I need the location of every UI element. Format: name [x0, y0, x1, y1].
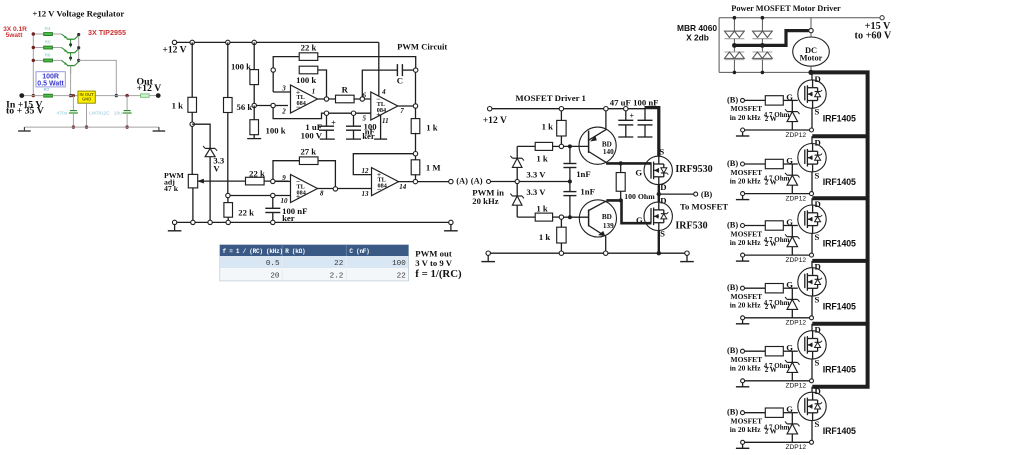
diode D5 MBR4060 upper	[761, 18, 763, 31]
transistor Q2 TIP2955	[67, 52, 75, 54]
wire divider to pin2	[256, 105, 288, 107]
svg-text:(B): (B)	[701, 189, 713, 199]
svg-text:+12 V: +12 V	[162, 45, 186, 56]
svg-text:100: 100	[392, 260, 406, 268]
svg-text:f = 1/(RC): f = 1/(RC)	[415, 268, 462, 280]
svg-text:1 k: 1 k	[172, 101, 184, 111]
resistor R 4.7 Ohm 2W cell 3	[745, 225, 766, 227]
svg-text:3: 3	[281, 85, 286, 93]
wire base bus	[70, 66, 72, 96]
regulator U2 LM7812C	[78, 91, 95, 103]
wire IRF530 source down	[658, 231, 660, 254]
ground PWM right	[450, 225, 452, 231]
svg-text:10: 10	[281, 197, 289, 205]
svg-text:2.2: 2.2	[330, 272, 344, 280]
ground cell 3	[741, 253, 745, 257]
svg-text:C: C	[397, 76, 403, 86]
svg-text:S: S	[659, 146, 664, 156]
diode D7 MBR4060 lower	[761, 45, 763, 52]
svg-text:ker: ker	[282, 213, 295, 223]
transistor Q3 TIP2955	[67, 65, 75, 67]
wire source row cell 6	[811, 421, 813, 443]
wire emitter rows	[33, 33, 43, 35]
svg-text:S: S	[815, 232, 820, 242]
svg-text:MOSFET: MOSFET	[731, 168, 763, 177]
svg-text:S: S	[815, 170, 820, 180]
wire drain stub Q8	[812, 196, 867, 200]
svg-text:PWM out: PWM out	[415, 248, 452, 258]
svg-text:1 k: 1 k	[539, 232, 551, 242]
svg-text:139: 139	[603, 222, 614, 230]
wire gate IRF530 thick	[606, 200, 651, 223]
svg-text:D: D	[660, 182, 666, 192]
fuse output link	[141, 94, 150, 97]
zener ZDP12 cell 1	[791, 100, 793, 111]
svg-text:14: 14	[399, 183, 407, 191]
svg-text:IRF1405: IRF1405	[823, 426, 856, 436]
svg-text:5watt: 5watt	[6, 32, 24, 39]
svg-text:7: 7	[400, 107, 404, 115]
ground pin11	[374, 138, 387, 140]
wire pin12 feedback	[353, 154, 413, 175]
wire op4 output row	[399, 181, 449, 183]
svg-text:R7: R7	[44, 87, 50, 92]
wire driver top rail	[492, 108, 645, 110]
ground cell 2	[741, 192, 745, 196]
wire pin10 row	[230, 195, 291, 197]
svg-text:10u: 10u	[114, 111, 122, 117]
wire source row cell 4	[811, 296, 813, 318]
svg-text:2 W: 2 W	[765, 427, 777, 435]
wire diode common thick to motor	[734, 31, 808, 46]
svg-text:1nF: 1nF	[576, 169, 590, 179]
svg-text:PWM Circuit: PWM Circuit	[397, 41, 447, 51]
svg-text:in 20 kHz: in 20 kHz	[730, 364, 762, 373]
svg-text:2 W: 2 W	[765, 240, 777, 248]
svg-text:ker: ker	[362, 131, 375, 141]
resistor R 4.7 Ohm 2W cell 4	[745, 287, 766, 289]
svg-text:470u: 470u	[57, 111, 68, 117]
wire op3 output row	[318, 188, 372, 190]
capacitor C2 100nF ker	[353, 115, 355, 126]
svg-text:1 k: 1 k	[536, 153, 548, 163]
svg-text:in 20 kHz: in 20 kHz	[730, 177, 762, 186]
terminal +12V PWM	[172, 40, 176, 44]
svg-text:084: 084	[377, 107, 386, 114]
svg-text:+12 V Voltage Regulator: +12 V Voltage Regulator	[32, 9, 124, 19]
svg-text:MOSFET: MOSFET	[731, 355, 763, 364]
terminal (A) PWM out	[449, 179, 453, 183]
svg-text:13: 13	[362, 190, 370, 198]
wire PWM ground rail	[175, 221, 451, 223]
transistor Q1 TIP2955	[67, 38, 75, 40]
svg-text:S: S	[815, 419, 820, 429]
svg-text:20 kHz: 20 kHz	[472, 196, 498, 206]
transistor Q4 BD140	[579, 127, 616, 164]
svg-text:S: S	[815, 107, 820, 117]
wire 27k left	[273, 161, 299, 180]
capacitor C 10u	[126, 96, 128, 111]
label 100R 0.5 Watt callout box	[36, 72, 65, 87]
terminal (B) to MOSFET	[661, 193, 694, 195]
svg-text:to +60 V: to +60 V	[855, 30, 892, 41]
wire diode box bottom edge	[719, 71, 809, 73]
svg-text:S: S	[660, 229, 665, 239]
svg-text:MOSFET: MOSFET	[731, 417, 763, 426]
svg-text:+12 V: +12 V	[137, 83, 162, 94]
wire pin3 input	[273, 91, 290, 93]
wire input left rail	[32, 34, 34, 96]
svg-text:1 k: 1 k	[536, 203, 548, 213]
svg-text:in 20 kHz: in 20 kHz	[730, 301, 762, 310]
resistor R 4.7 Ohm 2W cell 1	[745, 99, 766, 101]
zener D1 3.3V	[192, 124, 210, 148]
svg-text:f = 1 / (RC) (kHz): f = 1 / (RC) (kHz)	[223, 248, 283, 255]
svg-text:2 W: 2 W	[765, 303, 777, 311]
wire driver input row	[491, 181, 516, 183]
svg-text:MOSFET: MOSFET	[731, 104, 763, 113]
svg-text:(A): (A)	[471, 176, 483, 186]
resistor R 100 Ohm	[620, 163, 622, 172]
capacitor C 470u	[72, 96, 74, 111]
wire diode box left edge	[718, 18, 720, 73]
transistor Q5 BD139	[579, 200, 616, 237]
wire pin9 input	[275, 180, 291, 182]
ground right regulator	[158, 127, 160, 131]
svg-text:12: 12	[362, 167, 370, 175]
svg-text:ZDP12: ZDP12	[786, 383, 807, 390]
wire 22k feedback right	[318, 57, 416, 68]
mosfet IRF9530	[644, 156, 672, 184]
svg-text:084: 084	[297, 189, 306, 196]
svg-text:22: 22	[397, 272, 407, 280]
wire source row cell 5	[811, 359, 813, 381]
svg-text:IRF1405: IRF1405	[823, 364, 856, 374]
wire op1 output row	[318, 98, 337, 100]
svg-text:100 k: 100 k	[231, 62, 251, 72]
zener D2 3.3V	[512, 157, 522, 159]
svg-text:0.5: 0.5	[266, 260, 280, 268]
ground cell 4	[741, 316, 745, 320]
svg-text:S: S	[815, 295, 820, 305]
svg-text:G: G	[636, 215, 643, 225]
svg-text:100 Ohm: 100 Ohm	[624, 192, 655, 201]
svg-text:S: S	[815, 358, 820, 368]
zener ZDP12 cell 5	[791, 351, 793, 362]
wire op2 output	[397, 105, 413, 107]
svg-text:IRF530: IRF530	[675, 220, 707, 231]
op-amp U1C TL084	[291, 175, 318, 203]
svg-text:R (kΩ): R (kΩ)	[285, 248, 305, 255]
wire gate cell 6	[783, 412, 798, 414]
capacitor C integrator	[362, 70, 397, 97]
svg-text:GND: GND	[82, 97, 91, 102]
wire integrator output column	[415, 72, 417, 104]
capacitor C3 100nF ker	[272, 198, 274, 209]
wire collector to output	[79, 60, 117, 95]
svg-text:100R: 100R	[42, 73, 59, 80]
zener D3 3.3V	[516, 184, 518, 196]
svg-text:(B): (B)	[727, 221, 738, 230]
svg-text:2: 2	[281, 108, 286, 116]
op-amp U1B TL084	[371, 92, 398, 120]
svg-text:22 k: 22 k	[238, 207, 254, 217]
wire gate cell 5	[783, 350, 798, 352]
capacitor C6 1nF upper	[568, 144, 572, 148]
diode D6 MBR4060 lower	[733, 45, 735, 52]
svg-text:MOSFET: MOSFET	[731, 229, 763, 238]
zener ZDP12 cell 3	[791, 226, 793, 237]
ground PWM left	[174, 225, 176, 231]
svg-text:(B): (B)	[727, 283, 738, 292]
svg-text:2 W: 2 W	[765, 179, 777, 187]
wire drain stub Q9	[812, 259, 867, 263]
resistor R 4.7 Ohm 2W cell 2	[745, 163, 766, 165]
capacitor C1 1uF 100V	[326, 115, 328, 126]
svg-text:100 nF: 100 nF	[633, 97, 658, 107]
resistor R 4.7 Ohm 2W cell 6	[745, 412, 766, 414]
node base top junction	[559, 144, 563, 148]
wire drain lead Q6	[811, 72, 813, 80]
svg-text:V: V	[213, 164, 220, 174]
terminal +15V to +60V	[880, 16, 884, 20]
node rail-row junctions	[32, 32, 35, 35]
wire 27k right	[318, 161, 335, 187]
svg-text:1: 1	[312, 88, 316, 96]
svg-text:1 k: 1 k	[426, 122, 438, 132]
wire gate cell 1	[783, 99, 798, 101]
svg-text:3.3 V: 3.3 V	[526, 169, 546, 179]
wire driver left column upper	[516, 146, 518, 158]
wire 22k feedback left	[273, 57, 299, 92]
wire +V top rail motor	[719, 17, 880, 19]
svg-text:27 k: 27 k	[300, 147, 316, 157]
terminal +12V driver	[488, 107, 492, 111]
ground cell 6	[741, 440, 745, 444]
svg-text:3X TIP2955: 3X TIP2955	[88, 28, 126, 37]
terminal In +15V	[19, 93, 24, 98]
svg-text:X 2db: X 2db	[686, 33, 709, 43]
svg-text:(B): (B)	[727, 95, 738, 104]
wire output node to IRF530	[658, 185, 660, 203]
resistor R 4.7 Ohm 2W cell 5	[745, 350, 766, 352]
ground 100k divider	[247, 138, 261, 140]
op-amp U1A TL084	[291, 85, 318, 113]
ground cell 1	[741, 128, 745, 132]
svg-text:To MOSFET: To MOSFET	[680, 202, 728, 212]
svg-text:22 k: 22 k	[301, 43, 317, 53]
svg-text:ZDP12: ZDP12	[786, 196, 807, 203]
wire vref link to pin5	[273, 108, 371, 119]
svg-text:(B): (B)	[727, 408, 738, 417]
svg-text:IRF1405: IRF1405	[823, 301, 856, 311]
svg-text:to + 35 V: to + 35 V	[6, 106, 44, 117]
svg-text:ZDP12: ZDP12	[786, 257, 807, 264]
wire ground rail regulator	[24, 126, 159, 128]
svg-text:R6: R6	[45, 52, 51, 57]
svg-text:R4: R4	[45, 26, 51, 31]
table f=1/(RC) values	[220, 245, 409, 281]
wire gate IRF9530 thick	[606, 162, 652, 165]
svg-text:ZDP12: ZDP12	[786, 132, 807, 139]
svg-text:2 W: 2 W	[765, 115, 777, 123]
svg-text:6: 6	[363, 92, 367, 100]
svg-text:ZDP12: ZDP12	[786, 444, 807, 451]
svg-text:IRF9530: IRF9530	[675, 164, 712, 175]
svg-text:100 V: 100 V	[301, 130, 323, 140]
svg-text:140: 140	[603, 148, 614, 156]
svg-text:R: R	[342, 85, 349, 95]
svg-text:IRF1405: IRF1405	[823, 239, 856, 249]
wire drain stub Q10	[812, 322, 867, 326]
svg-text:11: 11	[382, 117, 389, 125]
terminal Out +12V	[156, 93, 161, 98]
ground driver right	[686, 255, 688, 261]
ground left regulator	[23, 127, 25, 131]
wire drain lead Q11	[811, 387, 813, 393]
wire gate cell 4	[783, 287, 798, 289]
wire source row cell 2	[811, 172, 813, 194]
svg-text:1nF: 1nF	[580, 187, 594, 197]
svg-text:(A): (A)	[456, 175, 468, 185]
motor M1 DC Motor	[809, 28, 813, 32]
svg-text:Power MOSFET Motor Driver: Power MOSFET Motor Driver	[731, 4, 841, 13]
ground cell 5	[741, 379, 745, 383]
svg-text:(B): (B)	[727, 346, 738, 355]
wire main row	[22, 95, 44, 97]
svg-text:+12 V: +12 V	[483, 115, 507, 126]
svg-text:MOSFET Driver 1: MOSFET Driver 1	[515, 93, 586, 103]
svg-text:20: 20	[270, 272, 280, 280]
zener ZDP12 cell 4	[791, 288, 793, 299]
svg-text:1 k: 1 k	[542, 122, 554, 132]
svg-text:MBR 4060: MBR 4060	[677, 23, 717, 33]
svg-text:100 k: 100 k	[296, 75, 316, 85]
zener ZDP12 cell 6	[791, 413, 793, 424]
svg-text:+: +	[331, 117, 336, 127]
wire regulator gnd lead	[86, 103, 88, 127]
wire 100k feedback right	[318, 70, 327, 97]
wire gate cell 3	[783, 225, 798, 227]
svg-text:3.3 V: 3.3 V	[526, 187, 546, 197]
svg-text:in 20 kHz: in 20 kHz	[730, 425, 762, 434]
svg-text:(B): (B)	[727, 159, 738, 168]
capacitor C7 1nF lower	[569, 182, 571, 192]
svg-text:0.5 Watt: 0.5 Watt	[37, 81, 64, 88]
zener ZDP12 cell 2	[791, 164, 793, 175]
svg-text:in 20 kHz: in 20 kHz	[730, 113, 762, 122]
wire drain bus thick	[811, 72, 868, 386]
wire drain stub Q7	[812, 134, 867, 138]
svg-text:R5: R5	[45, 40, 51, 45]
wire pin11 down	[380, 115, 382, 139]
svg-text:084: 084	[297, 100, 306, 107]
svg-text:+: +	[630, 111, 635, 120]
node motor drain bus	[808, 70, 813, 75]
svg-text:ZDP12: ZDP12	[786, 320, 807, 327]
svg-text:47 uF: 47 uF	[610, 97, 631, 107]
svg-text:G: G	[635, 167, 642, 177]
wire pin4 supply	[378, 42, 380, 96]
svg-text:MOSFET: MOSFET	[731, 292, 763, 301]
svg-text:47 k: 47 k	[164, 184, 179, 193]
wire source row cell 1	[811, 108, 813, 130]
wire source row cell 3	[811, 233, 813, 255]
svg-text:56 k: 56 k	[237, 102, 253, 112]
node base bottom junction	[559, 215, 563, 219]
svg-text:LM7812C: LM7812C	[89, 111, 110, 117]
wire driver rail thick to IRF9530 S	[645, 108, 659, 157]
svg-text:BD: BD	[602, 213, 612, 221]
svg-text:IRF1405: IRF1405	[823, 177, 856, 187]
svg-text:4: 4	[381, 88, 386, 96]
svg-text:2 W: 2 W	[765, 366, 777, 374]
wire +12V rail PWM	[177, 41, 379, 43]
wire collector rail	[78, 35, 80, 61]
wire gate cell 2	[783, 163, 798, 165]
wire pot wiper	[198, 180, 246, 182]
svg-text:1 M: 1 M	[426, 162, 441, 172]
svg-text:3 V to 9 V: 3 V to 9 V	[415, 258, 452, 268]
svg-text:22: 22	[334, 260, 344, 268]
svg-text:Motor: Motor	[800, 54, 823, 63]
diode D4 MBR4060 upper	[733, 18, 735, 31]
svg-text:8: 8	[320, 190, 324, 198]
svg-text:IRF1405: IRF1405	[823, 114, 856, 124]
op-amp U1D TL084	[372, 168, 399, 196]
ground driver left	[487, 255, 489, 261]
svg-text:100 k: 100 k	[266, 126, 286, 136]
svg-text:C (nF): C (nF)	[349, 248, 369, 255]
svg-text:in 20 kHz: in 20 kHz	[730, 238, 762, 247]
svg-text:084: 084	[378, 182, 387, 189]
wire driver ground rail	[488, 252, 687, 254]
